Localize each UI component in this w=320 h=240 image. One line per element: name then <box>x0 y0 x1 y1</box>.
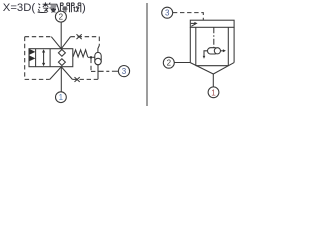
spring <box>73 50 88 57</box>
dashed link to port3 line <box>91 70 98 72</box>
CJK char 透 <box>38 2 49 12</box>
orifice bottom line <box>97 65 99 80</box>
svg-text:X=3D(: X=3D( <box>3 2 36 14</box>
envelope right edge upper segment <box>98 37 100 46</box>
svg-text:2: 2 <box>167 59 172 68</box>
pilot triangle lower <box>29 56 35 62</box>
svg-text:1: 1 <box>211 88 216 97</box>
port 2 line <box>60 22 62 49</box>
poppet diamond top <box>58 50 65 57</box>
junction dot <box>90 56 93 59</box>
cartridge inner wall right <box>227 27 229 65</box>
poppet diamond bottom <box>58 59 65 66</box>
dashed line port3 to cap <box>173 13 203 21</box>
dashed drain from dot <box>90 59 92 72</box>
flow arrow right <box>221 50 224 52</box>
envelope left edge <box>24 37 26 80</box>
port circle 2 <box>55 11 66 22</box>
cartridge inner bottom <box>196 65 229 67</box>
cartridge: port 3 circle <box>162 7 173 18</box>
svg-text:3: 3 <box>165 9 170 18</box>
left symbol: dashed envelope top edge <box>25 36 100 38</box>
valve body <box>29 49 73 67</box>
envelope right edge into pilot orifice <box>98 46 99 53</box>
port 1 line <box>60 67 62 92</box>
cartridge outer wall left <box>189 27 191 62</box>
cartridge inner wall left <box>195 27 197 65</box>
plugged port X mark on top edge <box>77 34 82 39</box>
port 2 link line <box>174 62 190 64</box>
envelope bottom edge <box>25 78 98 80</box>
spring to pilot link dash <box>88 56 90 58</box>
svg-text:1: 1 <box>59 93 64 102</box>
cartridge cap <box>190 20 234 27</box>
table separator line <box>146 3 148 106</box>
svg-text:3: 3 <box>122 67 127 76</box>
CJK char 開 <box>60 3 69 12</box>
dot to orifice line <box>92 56 94 58</box>
flow path left with down arrow <box>204 51 208 57</box>
cartridge nose funnel <box>190 63 234 74</box>
port circle 1 <box>56 92 67 103</box>
cartridge outer wall right <box>233 27 235 62</box>
cartridge port 2 circle <box>163 57 174 68</box>
centerline dash-dot <box>213 27 215 47</box>
flow path double arrow line <box>43 51 45 64</box>
envelope bottom notch diagonals <box>50 67 73 80</box>
line to port 3 <box>98 70 119 72</box>
poppet capsule <box>208 48 218 54</box>
plugged port X mark on bottom edge <box>75 77 80 82</box>
pilot triangle upper <box>29 49 35 55</box>
svg-text:): ) <box>82 2 86 14</box>
cap vent arrow <box>191 22 195 24</box>
title text X=3D( <box>3 2 86 14</box>
CJK char 氣 <box>49 3 59 13</box>
cartridge port 1 circle <box>208 87 219 98</box>
divider between positions <box>49 49 51 67</box>
cartridge port 1 line <box>212 74 214 87</box>
divider pilot box <box>35 49 37 67</box>
svg-text:2: 2 <box>59 13 64 22</box>
poppet ball <box>214 48 220 54</box>
port circle 3 <box>118 66 129 77</box>
arrowhead down <box>42 63 45 66</box>
arrowhead up <box>42 49 45 52</box>
pilot orifice capsule <box>95 52 101 64</box>
pilot orifice ball <box>95 58 101 64</box>
envelope top notch diagonals <box>51 37 70 49</box>
CJK char 閥 <box>71 3 80 12</box>
